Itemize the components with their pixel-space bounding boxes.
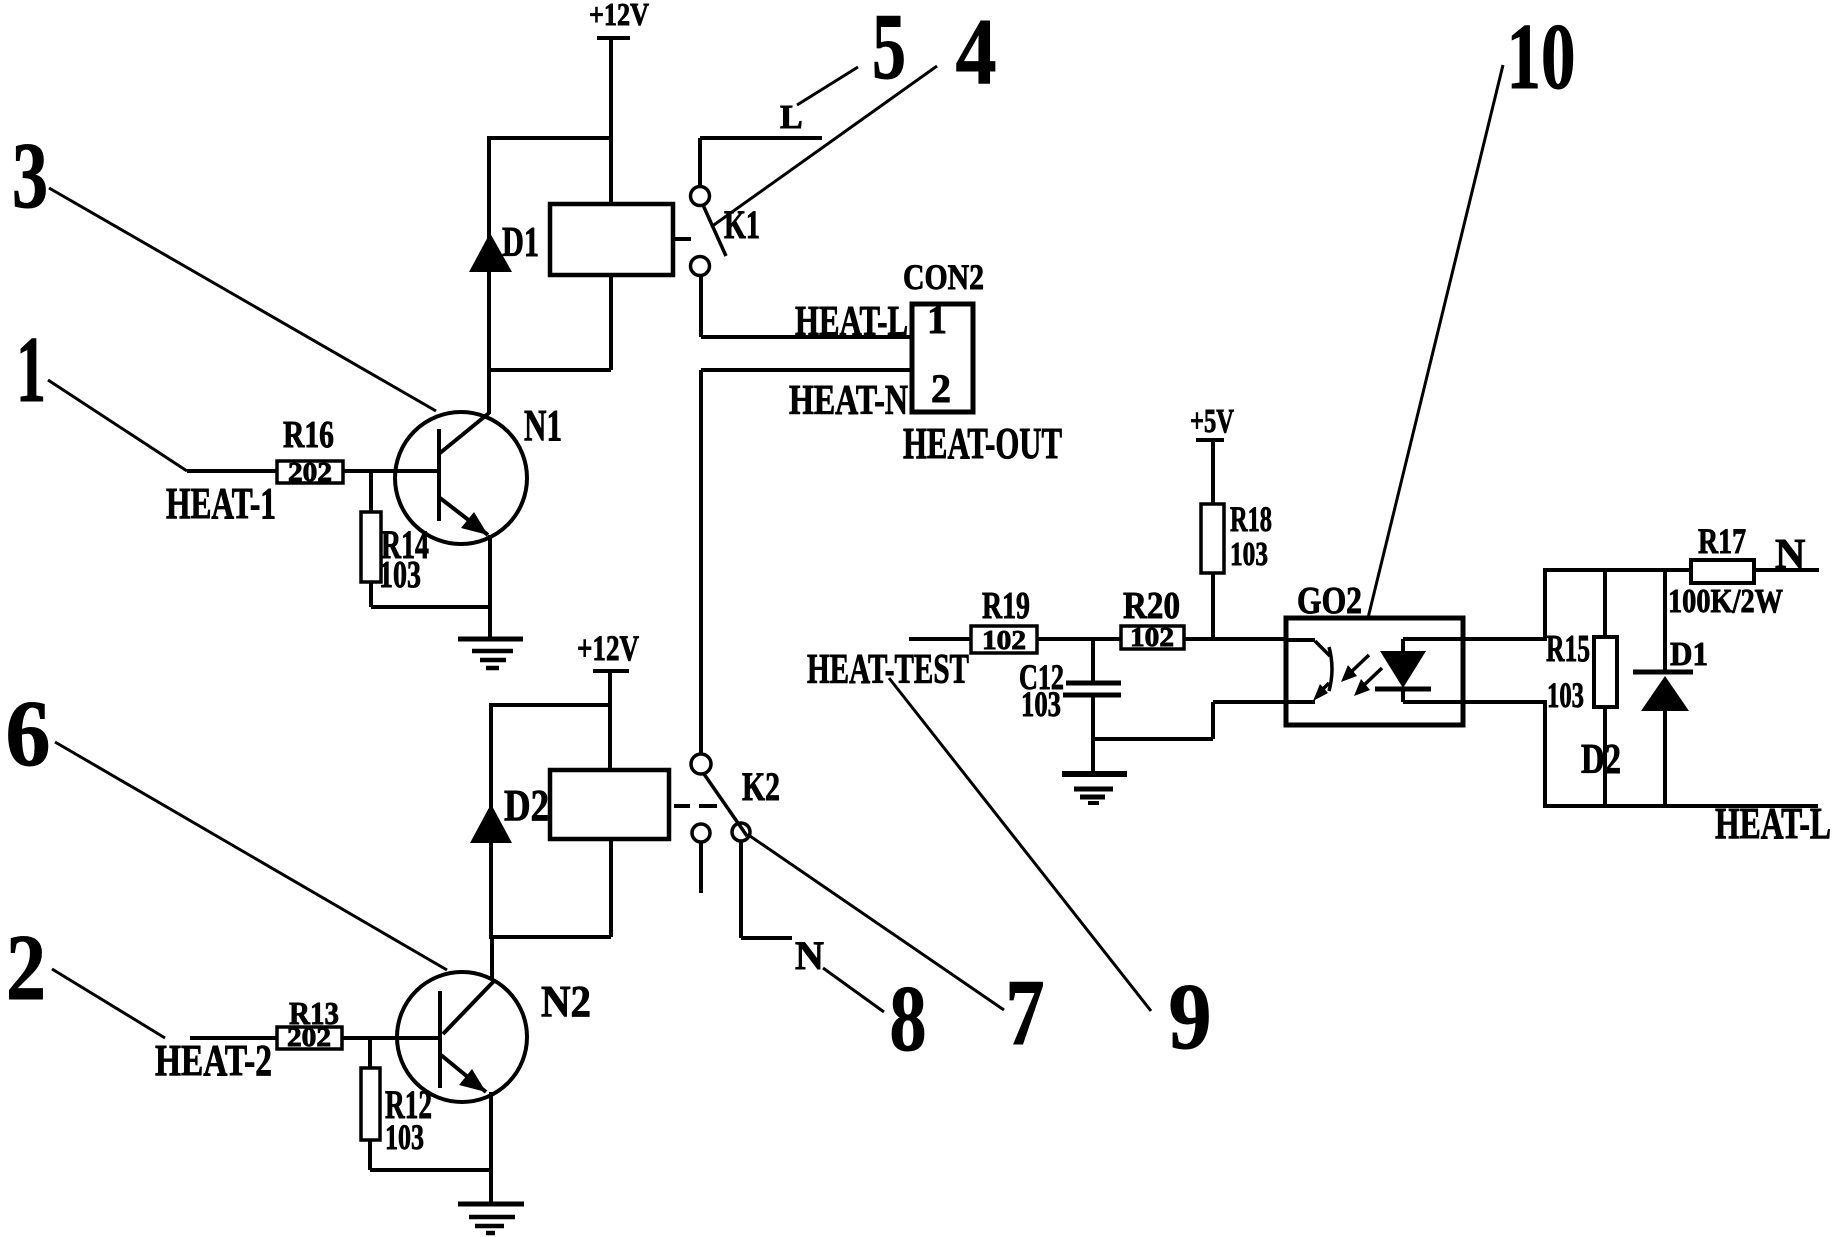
svg-text:D1: D1 xyxy=(1670,636,1708,673)
wire bottom of D1/coil loop xyxy=(487,368,611,372)
svg-text:7: 7 xyxy=(1006,961,1045,1065)
opto phototransistor xyxy=(1286,640,1332,702)
relay switch K1 xyxy=(691,187,761,276)
svg-text:+5V: +5V xyxy=(1190,403,1234,440)
node N (K2 output) xyxy=(741,841,824,978)
resistor R17 xyxy=(1668,521,1783,620)
svg-text:100K/2W: 100K/2W xyxy=(1668,583,1783,620)
power +12V (K2 rail) xyxy=(577,628,639,770)
resistor R15 xyxy=(1546,570,1617,806)
svg-text:+12V: +12V xyxy=(577,628,639,668)
svg-text:103: 103 xyxy=(379,554,421,596)
wire relay K1 coil bottom xyxy=(609,275,613,370)
callout 5 xyxy=(797,0,906,105)
wire relay K2 coil bottom xyxy=(609,839,613,937)
svg-text:HEAT-L: HEAT-L xyxy=(795,299,908,345)
callout 4 xyxy=(711,0,997,227)
node N (right) xyxy=(1754,532,1819,578)
resistor R12 xyxy=(361,1038,491,1170)
wire R19 to R20 xyxy=(1037,637,1121,641)
callout 7 xyxy=(750,836,1045,1065)
resistor R18 xyxy=(1201,499,1272,639)
wire HEAT-L to CON2 pin 1 xyxy=(701,275,912,337)
svg-text:R18: R18 xyxy=(1230,499,1272,539)
svg-text:202: 202 xyxy=(288,457,332,487)
svg-text:103: 103 xyxy=(1230,536,1268,573)
svg-text:5: 5 xyxy=(872,0,906,99)
ground (N2 emitter) xyxy=(458,1204,524,1233)
node HEAT-1 xyxy=(166,471,277,528)
svg-text:103: 103 xyxy=(1021,684,1061,724)
wire D1 branch vertical xyxy=(487,136,491,372)
svg-text:2: 2 xyxy=(6,916,46,1020)
svg-text:10: 10 xyxy=(1507,5,1576,109)
transistor N2 xyxy=(397,972,591,1102)
node HEAT-TEST xyxy=(807,639,971,693)
svg-text:9: 9 xyxy=(1169,965,1212,1069)
optocoupler GO2 xyxy=(1286,580,1463,725)
svg-text:D1: D1 xyxy=(502,220,539,266)
resistor R20 xyxy=(1121,585,1184,652)
wire D2 branch vertical xyxy=(489,703,493,939)
relay coil K2 xyxy=(550,770,669,839)
resistor R13 xyxy=(277,995,342,1052)
svg-text:R15: R15 xyxy=(1546,628,1590,670)
relay coil K1 xyxy=(550,204,673,275)
svg-text:R19: R19 xyxy=(982,585,1030,627)
callout 6 xyxy=(6,682,448,970)
ground (C12) xyxy=(1062,774,1127,803)
wire R20 to optocoupler xyxy=(1184,637,1286,641)
svg-text:D2: D2 xyxy=(1581,737,1621,783)
svg-text:N1: N1 xyxy=(524,401,562,450)
svg-text:R20: R20 xyxy=(1123,585,1180,627)
svg-text:202: 202 xyxy=(287,1022,331,1052)
svg-text:3: 3 xyxy=(12,124,48,228)
svg-text:HEAT-OUT: HEAT-OUT xyxy=(903,419,1062,468)
wire N1 collector xyxy=(487,370,491,414)
svg-text:8: 8 xyxy=(890,967,927,1071)
svg-text:N: N xyxy=(795,933,824,978)
relay K2 actuator dashes xyxy=(674,804,717,808)
connector CON2 xyxy=(903,257,984,412)
node L xyxy=(700,99,822,187)
svg-text:1: 1 xyxy=(927,297,947,342)
wire C12 node to opto LED cathode xyxy=(1093,702,1286,739)
svg-text:HEAT-L: HEAT-L xyxy=(1715,799,1831,848)
callout 9 xyxy=(889,678,1212,1069)
wire N2 collector xyxy=(490,937,494,980)
wire N2 base xyxy=(342,1036,440,1040)
ground (N1 emitter) xyxy=(458,639,523,668)
wire N1 emitter xyxy=(488,535,492,639)
svg-text:102: 102 xyxy=(1130,622,1174,652)
opto light arrows xyxy=(1341,655,1382,696)
svg-text:+12V: +12V xyxy=(589,0,649,32)
wire N1 base xyxy=(343,469,439,473)
callout 2 xyxy=(6,916,165,1038)
svg-text:K1: K1 xyxy=(724,202,760,247)
svg-text:2: 2 xyxy=(931,366,951,411)
svg-text:1: 1 xyxy=(16,318,46,422)
node HEAT-2 xyxy=(155,1036,277,1085)
wire +12V rail to D2 branch top xyxy=(491,703,610,707)
svg-text:6: 6 xyxy=(6,682,51,786)
wire HEAT-N to CON2 pin 2 xyxy=(701,370,912,754)
callout 10 xyxy=(1368,5,1576,618)
svg-text:N: N xyxy=(1775,532,1805,578)
relay K1 actuator dash xyxy=(674,237,691,241)
power +12V (K1 rail) xyxy=(589,0,649,204)
diode D1 xyxy=(469,220,539,272)
svg-text:HEAT-N: HEAT-N xyxy=(789,378,908,424)
opto LED xyxy=(1375,639,1431,702)
transistor N1 xyxy=(395,401,562,544)
callout 1 xyxy=(16,318,187,471)
svg-text:N2: N2 xyxy=(541,977,591,1026)
relay switch K2 xyxy=(691,754,780,842)
svg-text:R16: R16 xyxy=(283,414,334,456)
wire K2 NC contact stub xyxy=(699,842,703,893)
resistor R19 xyxy=(971,585,1037,655)
svg-text:HEAT-1: HEAT-1 xyxy=(166,479,276,528)
callout 3 xyxy=(12,124,436,411)
svg-text:HEAT-TEST: HEAT-TEST xyxy=(807,647,969,693)
wire bottom of D2/coil loop xyxy=(489,935,611,939)
wire opto emitter out xyxy=(1403,700,1545,704)
svg-text:D2: D2 xyxy=(504,781,549,830)
svg-text:K2: K2 xyxy=(742,764,780,809)
power +5V xyxy=(1190,403,1234,504)
wire top rail to R17 xyxy=(1543,568,1691,572)
wire N2 emitter xyxy=(489,1092,493,1204)
callout 8 xyxy=(823,967,927,1071)
svg-text:HEAT-2: HEAT-2 xyxy=(155,1036,272,1085)
diode D1 (right) xyxy=(1633,570,1708,806)
svg-text:103: 103 xyxy=(385,1117,424,1157)
wire bottom rail HEAT-L xyxy=(1543,804,1818,808)
wire right network left verticals xyxy=(1543,570,1547,806)
svg-text:4: 4 xyxy=(956,0,997,104)
resistor R16 xyxy=(277,414,343,487)
svg-text:GO2: GO2 xyxy=(1297,580,1362,622)
svg-text:R17: R17 xyxy=(1698,521,1746,561)
wire opto collector out xyxy=(1403,637,1545,641)
resistor R14 xyxy=(361,471,490,607)
svg-text:103: 103 xyxy=(1547,675,1584,715)
diode D2 xyxy=(470,781,549,843)
svg-text:102: 102 xyxy=(982,625,1026,655)
capacitor C12 xyxy=(1019,639,1121,772)
svg-text:CON2: CON2 xyxy=(903,257,984,297)
wire +12V rail to D1 branch top xyxy=(489,136,611,140)
